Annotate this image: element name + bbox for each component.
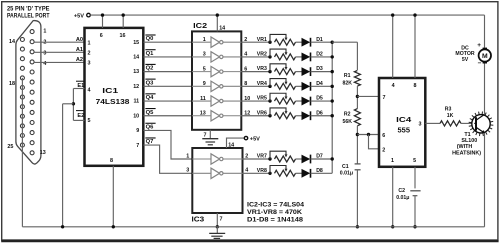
wire IC4 pin 3 to R3	[425, 122, 440, 124]
IC IC3 74LS04 inverter	[192, 148, 242, 213]
wire parallel port D0 to IC1 A0	[34, 41, 84, 43]
svg-text:74LS138: 74LS138	[96, 97, 130, 106]
wire IC1 pin 16 to +5V	[122, 15, 124, 28]
svg-text:Q7: Q7	[146, 139, 154, 145]
svg-text:1: 1	[203, 37, 206, 43]
ground IC3	[209, 232, 225, 234]
resistor R1 82K	[354, 71, 360, 87]
wire connector ground pins 18-25 to bottom rail	[21, 78, 23, 227]
svg-text:R3: R3	[445, 107, 452, 113]
svg-text:82K: 82K	[342, 81, 352, 87]
svg-text:4: 4	[392, 83, 395, 89]
svg-text:13: 13	[40, 150, 46, 156]
wire R2 to node	[356, 126, 358, 164]
svg-text:10: 10	[133, 113, 139, 119]
wire Q1 to IC2 gate input	[143, 56, 192, 58]
svg-text:25: 25	[7, 144, 13, 150]
wire tap to IC4 pin 2	[369, 135, 380, 149]
wire R1 top feed	[356, 42, 358, 70]
inverter gate IC2-5	[192, 100, 211, 102]
wire D1 cathode to bus	[311, 41, 333, 43]
svg-text:VR5: VR5	[257, 96, 267, 102]
wire D6 cathode to bus	[311, 115, 333, 117]
svg-text:6: 6	[382, 133, 385, 139]
svg-text:Q4: Q4	[146, 95, 155, 101]
wire D3 cathode to bus	[311, 71, 333, 73]
transistor T1 SL100 with heatsink	[469, 112, 494, 137]
svg-text:−: −	[478, 60, 482, 67]
svg-text:14: 14	[9, 39, 15, 45]
svg-text:6: 6	[100, 33, 103, 39]
svg-text:3: 3	[43, 51, 46, 57]
wire Q6 to IC3 pin 1	[143, 130, 192, 159]
svg-text:0.01μ: 0.01μ	[396, 195, 409, 201]
svg-text:VR2: VR2	[257, 52, 267, 58]
svg-text:1: 1	[186, 153, 189, 159]
svg-text:2: 2	[88, 51, 91, 57]
svg-text:A1: A1	[76, 47, 83, 53]
svg-text:+5V: +5V	[250, 136, 260, 142]
svg-text:11: 11	[200, 96, 206, 102]
wire D7 cathode to bus	[311, 158, 333, 160]
wire VR6 to D6	[296, 115, 302, 117]
svg-text:IC4: IC4	[396, 115, 412, 124]
wire enable to ground rail	[63, 103, 74, 105]
svg-text:3: 3	[186, 168, 189, 174]
wire Q4 to IC2 gate input	[143, 100, 192, 102]
svg-text:14: 14	[219, 26, 225, 32]
diode D6 1N4148	[302, 111, 311, 120]
svg-text:Q6: Q6	[146, 124, 155, 130]
wire inverter output to VR2	[241, 56, 270, 58]
ground IC2	[202, 138, 218, 140]
svg-text:5: 5	[88, 118, 91, 124]
wire bus top to R1	[332, 41, 357, 43]
wire D2 cathode to bus	[311, 56, 333, 58]
inverter gate IC3-1	[192, 158, 211, 160]
diode D5 1N4148	[302, 97, 311, 106]
node junction VR8 wiper tie	[268, 172, 271, 175]
resistor VR5 470K preset	[270, 93, 286, 101]
svg-text:VR7: VR7	[257, 154, 267, 160]
svg-text:15: 15	[133, 40, 139, 46]
svg-text:9: 9	[203, 81, 206, 87]
svg-text:1: 1	[391, 158, 394, 164]
wire VR8 to D8	[296, 172, 302, 174]
wire IC1 pin 6 to +5V	[102, 15, 104, 28]
svg-text:8: 8	[110, 158, 113, 164]
wire VR2 to D2	[296, 56, 302, 58]
motor M DC motor 5V	[479, 48, 491, 64]
IC IC2 74LS04 hex inverter	[192, 31, 241, 129]
inverter gate IC2-2	[192, 56, 211, 58]
wire inverter output to VR8	[243, 172, 271, 174]
svg-text:3: 3	[203, 52, 206, 58]
wire D8 cathode to bus	[311, 172, 333, 174]
node junction VR5 wiper tie	[268, 99, 271, 102]
svg-text:IC3: IC3	[192, 215, 205, 224]
wire +5V rail down to motor	[484, 15, 486, 48]
svg-text:VR1-VR8 = 470K: VR1-VR8 = 470K	[247, 209, 302, 216]
svg-text:1K: 1K	[447, 113, 454, 119]
node +5V terminal at IC3	[244, 136, 247, 139]
wire inverter output to VR5	[241, 100, 270, 102]
wire IC1 pin 8 to ground rail	[112, 166, 114, 227]
resistor VR2 470K preset	[270, 49, 286, 57]
wire inverter output to VR3	[241, 71, 270, 73]
wire VR1 to D1	[296, 41, 302, 43]
resistor VR7 470K preset	[270, 151, 286, 159]
wire Q7 to IC3 pin 3	[143, 145, 192, 173]
svg-text:14: 14	[133, 55, 139, 61]
svg-text:A0: A0	[76, 37, 83, 43]
wire C1 to ground rail	[356, 170, 358, 227]
svg-text:C2: C2	[398, 188, 405, 194]
wire D5 cathode to bus	[311, 100, 333, 102]
wire Q0 to IC2 gate input	[143, 41, 192, 43]
wire IC3 pin 7 to ground rail	[216, 213, 218, 227]
node junction VR2 wiper tie	[268, 55, 271, 58]
wire IC2 pin 14 to +5V rail	[216, 15, 218, 31]
wire R1 to node	[356, 86, 358, 109]
svg-text:SL100: SL100	[461, 138, 477, 144]
svg-text:4: 4	[88, 87, 91, 93]
svg-text:E2: E2	[77, 113, 84, 119]
inverter gate IC2-6	[192, 115, 211, 117]
svg-text:18: 18	[9, 81, 15, 87]
inverter gate IC2-3	[192, 71, 211, 73]
wire Q5 to IC2 gate input	[143, 115, 192, 117]
wire inverter output to VR7	[243, 158, 271, 160]
svg-text:IC2-IC3 = 74LS04: IC2-IC3 = 74LS04	[247, 201, 304, 208]
svg-text:16: 16	[120, 33, 126, 39]
wire T1 emitter to ground rail	[484, 133, 486, 227]
svg-text:12: 12	[133, 84, 139, 90]
wire node to IC4 pin 7	[357, 95, 379, 97]
wire +5V top rail	[90, 14, 484, 16]
IC IC4 555 timer	[379, 78, 425, 167]
node junction pin2 tap	[367, 133, 370, 136]
wire R3 to T1 base	[461, 122, 474, 124]
svg-text:3: 3	[419, 122, 422, 128]
svg-text:VR1: VR1	[257, 37, 267, 43]
node junction VR3 wiper tie	[268, 70, 271, 73]
svg-text:8: 8	[414, 83, 417, 89]
wire IC4 pin 8 to +5V	[414, 15, 416, 78]
svg-text:2: 2	[382, 147, 385, 153]
diode D1 1N4148	[302, 38, 311, 47]
diode D2 1N4148	[302, 53, 311, 62]
wire IC4 pin 5 to C2	[414, 167, 416, 189]
svg-text:Q0: Q0	[146, 36, 154, 42]
svg-text:Q3: Q3	[146, 80, 155, 86]
wire Q3 to IC2 gate input	[143, 85, 192, 87]
wire parallel port D2 to IC1 A2	[34, 61, 84, 63]
connector DB25 parallel port outline	[16, 21, 41, 164]
diode D8 1N4148	[302, 169, 311, 178]
wire inverter output to VR1	[241, 41, 270, 43]
svg-text:5: 5	[413, 158, 416, 164]
wire enable tie E1-E2	[72, 89, 74, 121]
resistor VR1 470K preset	[270, 34, 286, 42]
svg-text:IC1: IC1	[102, 86, 118, 95]
wire inverter output to VR4	[241, 85, 270, 87]
wire node to IC4 pin 6	[357, 134, 379, 136]
resistor VR4 470K preset	[270, 79, 286, 87]
svg-text:VR6: VR6	[257, 110, 267, 116]
svg-text:VR3: VR3	[257, 66, 267, 72]
wire IC3 pin 14 to +5V terminal	[227, 138, 245, 148]
resistor R3 1K	[440, 121, 461, 126]
diode D4 1N4148	[302, 82, 311, 91]
svg-text:VR8: VR8	[257, 168, 267, 174]
svg-text:555: 555	[398, 125, 411, 134]
svg-text:5V: 5V	[462, 57, 469, 63]
svg-text:VR4: VR4	[257, 81, 267, 87]
wire Q2 to IC2 gate input	[143, 71, 192, 73]
svg-text:Q2: Q2	[146, 66, 154, 72]
resistor R2 56K	[354, 109, 360, 126]
wire VR3 to D3	[296, 71, 302, 73]
wire IC1 pin 4 enable	[73, 88, 84, 90]
node junction VR7 wiper tie	[268, 157, 271, 160]
resistor VR6 470K preset	[270, 108, 286, 116]
inverter gate IC2-4	[192, 85, 211, 87]
capacitor C2 0.01u	[410, 190, 420, 192]
svg-text:1: 1	[88, 40, 91, 46]
svg-text:HEATSINK): HEATSINK)	[452, 150, 481, 156]
svg-text:0.01μ: 0.01μ	[340, 171, 353, 177]
svg-text:Q5: Q5	[146, 110, 155, 116]
resistor VR8 470K preset	[270, 166, 286, 174]
capacitor C1 0.01u	[355, 163, 361, 165]
svg-text:A2: A2	[76, 57, 83, 63]
svg-text:25 PIN 'D' TYPE: 25 PIN 'D' TYPE	[7, 6, 50, 13]
svg-text:(WITH: (WITH	[457, 144, 473, 150]
svg-text:5: 5	[203, 66, 206, 72]
svg-text:9: 9	[136, 128, 139, 134]
resistor VR3 470K preset	[270, 64, 286, 72]
svg-text:PARALLEL PORT: PARALLEL PORT	[7, 13, 50, 20]
svg-text:56K: 56K	[342, 119, 352, 125]
svg-text:7: 7	[220, 216, 223, 222]
wire diode cathode bus	[331, 42, 333, 173]
svg-text:T1: T1	[464, 132, 470, 138]
svg-text:+5V: +5V	[74, 13, 84, 19]
wire IC2 pin 7 to ground	[209, 130, 211, 139]
svg-text:11: 11	[133, 99, 139, 105]
node connector pins 1-13	[30, 30, 34, 155]
wire D4 cathode to bus	[311, 85, 333, 87]
inverter gate IC3-2	[192, 172, 211, 174]
node junction VR6 wiper tie	[268, 114, 271, 117]
wire T1 collector to motor	[484, 63, 486, 114]
node junction pin6	[356, 133, 359, 136]
svg-text:7: 7	[136, 143, 139, 149]
svg-text:+: +	[477, 42, 481, 49]
wire inverter output to VR6	[241, 115, 270, 117]
diode D7 1N4148	[302, 155, 311, 164]
svg-text:13: 13	[133, 69, 139, 75]
wire VR7 to D7	[296, 158, 302, 160]
svg-text:3: 3	[88, 61, 91, 67]
svg-text:1: 1	[43, 28, 46, 34]
inverter gate IC2-1	[192, 41, 211, 43]
wire IC4 pin 4 to +5V	[392, 15, 394, 78]
node junction VR4 wiper tie	[268, 85, 271, 88]
node enable junction	[72, 102, 75, 105]
svg-text:14: 14	[228, 143, 234, 149]
wire IC1 pin 5 enable	[73, 119, 84, 121]
wire VR5 to D5	[296, 100, 302, 102]
wire IC4 pin 1 to ground rail	[392, 167, 394, 227]
svg-text:R2: R2	[344, 112, 351, 118]
IC IC1 74LS138 decoder	[85, 28, 144, 166]
node connector pins 14-25	[20, 38, 24, 148]
node junction pin7	[356, 95, 359, 98]
node junction VR1 wiper tie	[268, 41, 271, 44]
svg-text:D1-D8 = 1N4148: D1-D8 = 1N4148	[247, 217, 303, 224]
svg-text:Q1: Q1	[146, 51, 155, 57]
svg-text:13: 13	[200, 111, 206, 117]
svg-text:C1: C1	[342, 164, 349, 170]
svg-text:IC2: IC2	[193, 21, 207, 30]
svg-text:7: 7	[204, 133, 207, 139]
wire ground bottom rail	[22, 226, 484, 228]
wire VR4 to D4	[296, 85, 302, 87]
svg-text:7: 7	[383, 95, 386, 101]
diode D3 1N4148	[302, 67, 311, 76]
svg-text:M: M	[482, 53, 488, 60]
wire C2 to ground rail	[414, 196, 416, 227]
svg-text:R1: R1	[344, 73, 351, 79]
wire parallel port D1 to IC1 A1	[34, 51, 84, 53]
